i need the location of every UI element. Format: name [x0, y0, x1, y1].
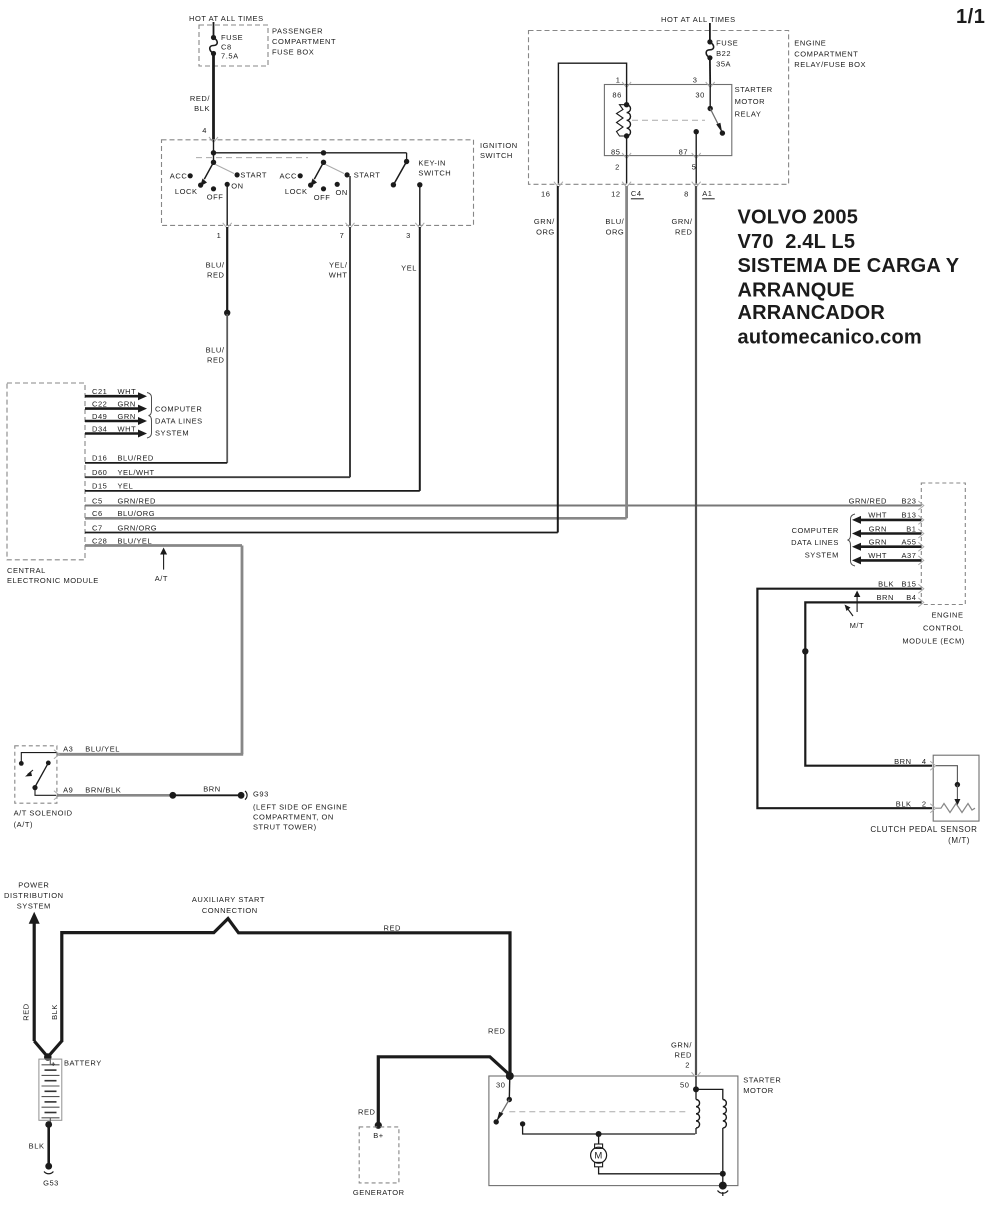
svg-text:2: 2: [922, 800, 927, 809]
svg-text:BLU/: BLU/: [206, 346, 225, 355]
svg-text:DISTRIBUTION: DISTRIBUTION: [4, 891, 64, 900]
svg-text:B13: B13: [902, 511, 917, 520]
svg-text:RED: RED: [358, 1108, 376, 1117]
svg-text:ENGINE: ENGINE: [931, 611, 963, 620]
svg-text:MOTOR: MOTOR: [743, 1086, 774, 1095]
svg-text:RED: RED: [488, 1027, 506, 1036]
svg-text:SISTEMA DE CARGA Y: SISTEMA DE CARGA Y: [738, 255, 960, 277]
svg-text:WHT: WHT: [868, 551, 887, 560]
svg-text:CONNECTION: CONNECTION: [202, 906, 258, 915]
svg-text:B22: B22: [716, 49, 731, 58]
svg-text:C21: C21: [92, 387, 107, 396]
svg-text:RED: RED: [207, 271, 225, 280]
svg-text:COMPARTMENT, ON: COMPARTMENT, ON: [253, 813, 334, 822]
svg-text:LOCK: LOCK: [175, 187, 198, 196]
svg-text:A9: A9: [63, 786, 73, 795]
svg-text:SWITCH: SWITCH: [418, 169, 451, 178]
svg-text:D16: D16: [92, 454, 107, 463]
svg-text:C8: C8: [221, 43, 232, 52]
svg-text:(M/T): (M/T): [948, 836, 970, 845]
svg-text:ON: ON: [336, 188, 348, 197]
svg-text:HOT AT ALL TIMES: HOT AT ALL TIMES: [189, 14, 264, 23]
svg-text:CLUTCH PEDAL SENSOR: CLUTCH PEDAL SENSOR: [870, 825, 977, 834]
svg-text:GRN: GRN: [869, 524, 887, 533]
svg-text:1: 1: [217, 231, 222, 240]
svg-text:RELAY/FUSE BOX: RELAY/FUSE BOX: [794, 60, 866, 69]
svg-text:+: +: [51, 1060, 56, 1069]
svg-text:COMPARTMENT: COMPARTMENT: [272, 37, 336, 46]
svg-text:STARTER: STARTER: [735, 85, 773, 94]
svg-text:BRN: BRN: [894, 757, 912, 766]
svg-text:D34: D34: [92, 424, 107, 433]
svg-text:WHT: WHT: [118, 387, 137, 396]
svg-text:8: 8: [684, 190, 689, 199]
svg-text:B15: B15: [902, 580, 917, 589]
svg-text:G93: G93: [253, 790, 269, 799]
svg-text:C5: C5: [92, 496, 103, 505]
svg-text:3: 3: [693, 76, 698, 85]
svg-text:RED: RED: [22, 1003, 31, 1021]
svg-text:30: 30: [695, 91, 704, 100]
svg-text:GENERATOR: GENERATOR: [353, 1188, 405, 1197]
svg-text:GRN/: GRN/: [672, 217, 693, 226]
svg-text:AUXILIARY START: AUXILIARY START: [192, 895, 265, 904]
svg-text:1/1: 1/1: [956, 6, 985, 28]
svg-text:C28: C28: [92, 536, 107, 545]
svg-text:87: 87: [679, 147, 688, 156]
svg-text:STARTER: STARTER: [743, 1076, 781, 1085]
svg-text:D49: D49: [92, 412, 107, 421]
svg-text:4: 4: [202, 126, 207, 135]
svg-text:A37: A37: [902, 551, 917, 560]
svg-text:ENGINE: ENGINE: [794, 39, 826, 48]
svg-text:BLU/ORG: BLU/ORG: [118, 509, 156, 518]
svg-text:BRN: BRN: [203, 785, 221, 794]
svg-text:3: 3: [406, 231, 411, 240]
svg-text:C22: C22: [92, 399, 107, 408]
svg-text:RED: RED: [675, 228, 693, 237]
svg-text:B23: B23: [902, 496, 917, 505]
svg-text:4: 4: [922, 757, 927, 766]
svg-text:IGNITION: IGNITION: [480, 141, 518, 150]
svg-text:B4: B4: [906, 593, 916, 602]
svg-text:START: START: [354, 171, 381, 180]
svg-text:GRN: GRN: [118, 399, 136, 408]
svg-text:7: 7: [340, 231, 345, 240]
svg-text:PASSENGER: PASSENGER: [272, 27, 323, 36]
svg-text:BLU/RED: BLU/RED: [118, 454, 154, 463]
svg-text:16: 16: [541, 190, 550, 199]
svg-text:OFF: OFF: [207, 192, 224, 201]
svg-text:KEY-IN: KEY-IN: [418, 159, 446, 168]
svg-text:YEL: YEL: [401, 264, 417, 273]
svg-text:BLK: BLK: [194, 104, 210, 113]
svg-text:SYSTEM: SYSTEM: [17, 902, 51, 911]
svg-text:C6: C6: [92, 509, 103, 518]
svg-text:MODULE (ECM): MODULE (ECM): [902, 637, 964, 646]
svg-text:86: 86: [612, 91, 621, 100]
svg-text:BRN/BLK: BRN/BLK: [85, 786, 121, 795]
svg-text:START: START: [240, 171, 267, 180]
svg-text:STRUT TOWER): STRUT TOWER): [253, 823, 317, 832]
svg-text:ACC: ACC: [280, 172, 298, 181]
svg-text:FUSE: FUSE: [221, 33, 243, 42]
svg-text:(A/T): (A/T): [14, 820, 33, 829]
svg-text:12: 12: [611, 190, 620, 199]
svg-text:GRN/RED: GRN/RED: [118, 496, 156, 505]
svg-text:1: 1: [616, 76, 621, 85]
svg-text:(LEFT SIDE OF ENGINE: (LEFT SIDE OF ENGINE: [253, 803, 348, 812]
svg-text:BLU/YEL: BLU/YEL: [85, 745, 120, 754]
svg-text:B+: B+: [373, 1131, 384, 1140]
svg-text:YEL: YEL: [118, 482, 134, 491]
svg-text:RED: RED: [675, 1051, 693, 1060]
svg-text:DATA LINES: DATA LINES: [791, 538, 839, 547]
svg-text:YEL/WHT: YEL/WHT: [118, 468, 155, 477]
svg-text:FUSE BOX: FUSE BOX: [272, 48, 314, 57]
svg-text:RELAY: RELAY: [735, 110, 762, 119]
svg-text:FUSE: FUSE: [716, 39, 738, 48]
svg-text:WHT: WHT: [329, 271, 348, 280]
svg-text:COMPARTMENT: COMPARTMENT: [794, 50, 858, 59]
svg-text:A1: A1: [702, 189, 712, 198]
svg-text:2: 2: [685, 1061, 690, 1070]
svg-text:HOT AT ALL TIMES: HOT AT ALL TIMES: [661, 15, 736, 24]
svg-text:ARRANCADOR: ARRANCADOR: [738, 302, 886, 324]
svg-text:DATA LINES: DATA LINES: [155, 416, 203, 425]
svg-text:GRN/: GRN/: [671, 1041, 692, 1050]
svg-text:A/T SOLENOID: A/T SOLENOID: [14, 809, 73, 818]
svg-text:RED: RED: [384, 924, 402, 933]
svg-text:BLU/YEL: BLU/YEL: [118, 536, 153, 545]
svg-text:CONTROL: CONTROL: [923, 624, 964, 633]
svg-text:ORG: ORG: [536, 228, 555, 237]
svg-text:BRN: BRN: [877, 593, 895, 602]
svg-text:WHT: WHT: [868, 511, 887, 520]
svg-text:GRN: GRN: [118, 412, 136, 421]
svg-text:GRN/RED: GRN/RED: [849, 496, 887, 505]
svg-text:B1: B1: [906, 524, 916, 533]
svg-text:BLK: BLK: [896, 800, 912, 809]
svg-text:G53: G53: [43, 1179, 59, 1188]
svg-text:GRN: GRN: [869, 538, 887, 547]
svg-text:7.5A: 7.5A: [221, 52, 239, 61]
svg-text:BLU/: BLU/: [605, 217, 624, 226]
svg-text:A/T: A/T: [155, 574, 168, 583]
svg-text:D15: D15: [92, 482, 107, 491]
svg-text:2: 2: [615, 163, 620, 172]
svg-text:M/T: M/T: [850, 621, 865, 630]
svg-text:C4: C4: [631, 189, 642, 198]
svg-text:CENTRAL: CENTRAL: [7, 566, 46, 575]
svg-text:50: 50: [680, 1080, 689, 1089]
svg-text:OFF: OFF: [314, 193, 331, 202]
svg-text:BLK: BLK: [50, 1004, 59, 1020]
svg-text:D60: D60: [92, 468, 107, 477]
svg-text:85: 85: [611, 147, 620, 156]
svg-text:automecanico.com: automecanico.com: [738, 326, 922, 348]
svg-text:SYSTEM: SYSTEM: [805, 551, 839, 560]
svg-text:35A: 35A: [716, 60, 731, 69]
svg-text:V70 2.4L L5: V70 2.4L L5: [738, 231, 856, 253]
svg-text:30: 30: [496, 1081, 505, 1090]
svg-text:YEL/: YEL/: [329, 261, 348, 270]
svg-text:BLK: BLK: [29, 1142, 45, 1151]
svg-text:RED: RED: [207, 356, 225, 365]
svg-text:ELECTRONIC MODULE: ELECTRONIC MODULE: [7, 576, 99, 585]
svg-text:ORG: ORG: [606, 228, 625, 237]
svg-text:ARRANQUE: ARRANQUE: [738, 279, 855, 301]
svg-text:BLK: BLK: [878, 580, 894, 589]
svg-text:C7: C7: [92, 523, 103, 532]
svg-text:POWER: POWER: [18, 881, 49, 890]
svg-text:COMPUTER: COMPUTER: [792, 526, 839, 535]
svg-text:M: M: [594, 1151, 602, 1162]
svg-text:GRN/ORG: GRN/ORG: [118, 523, 158, 532]
svg-text:RED/: RED/: [190, 94, 210, 103]
svg-text:ACC: ACC: [170, 172, 188, 181]
svg-text:BLU/: BLU/: [206, 261, 225, 270]
svg-text:A3: A3: [63, 745, 73, 754]
svg-text:LOCK: LOCK: [285, 187, 308, 196]
svg-text:A55: A55: [902, 538, 917, 547]
svg-text:WHT: WHT: [118, 424, 137, 433]
svg-text:VOLVO 2005: VOLVO 2005: [738, 207, 859, 229]
svg-text:BATTERY: BATTERY: [64, 1059, 102, 1068]
svg-text:ON: ON: [231, 181, 243, 190]
svg-text:MOTOR: MOTOR: [735, 97, 766, 106]
svg-text:SYSTEM: SYSTEM: [155, 428, 189, 437]
svg-text:COMPUTER: COMPUTER: [155, 405, 202, 414]
svg-text:SWITCH: SWITCH: [480, 151, 513, 160]
svg-text:GRN/: GRN/: [534, 217, 555, 226]
